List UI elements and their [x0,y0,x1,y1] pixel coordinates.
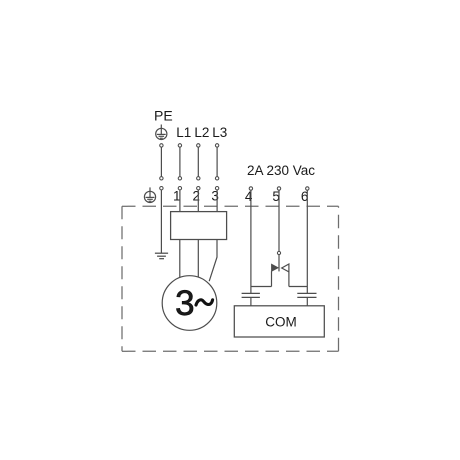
enclosure (dashed box) bottom edge [122,350,339,352]
wire block to motor (phase 1) [179,240,181,278]
wire triac to node 6 branch [289,286,307,288]
wire terminal 4 down to capacitor contact [250,190,252,293]
node terminal 1 pin [178,187,181,190]
svg-text:L3: L3 [212,125,227,140]
wire PE lead [160,147,162,177]
node PE terminal pin [160,187,163,190]
svg-text:L2: L2 [194,125,209,140]
wire triac to node 4 branch [251,286,272,288]
wire terminal 6 down to capacitor contact [306,190,308,293]
svg-text:3: 3 [211,188,219,203]
svg-text:PE: PE [154,107,173,123]
wire block to motor (phase 3, dogleg) [209,240,217,282]
wire PE to ground [160,190,162,253]
svg-text:L1: L1 [176,125,191,140]
wire terminal 2 to terminal block [197,190,199,212]
terminal block [171,212,227,240]
node terminal 4 pin [249,187,252,190]
node L2 lead end pin [197,177,200,180]
capacitor C2 (right contact plates) [297,293,316,297]
triac U1 (right open triangle) [282,264,289,272]
ground symbol [155,253,168,259]
node L3 supply pin [215,144,218,147]
svg-text:4: 4 [245,189,253,204]
svg-text:2A 230 Vac: 2A 230 Vac [247,163,315,178]
triac left leg [271,271,273,286]
protective earth symbol (top, PE) [156,125,167,140]
wire block to motor (phase 2) [197,240,199,277]
COM module box [234,306,324,337]
node L1 supply pin [178,144,181,147]
node PE supply pin [160,144,163,147]
wire terminal 3 to terminal block [216,190,218,212]
gate wire into triac [278,255,280,272]
svg-text:3: 3 [175,284,194,323]
node L3 lead end pin [215,177,218,180]
triac right leg [288,272,290,287]
enclosure (dashed box) left edge [121,206,123,351]
wire L3 lead [216,147,218,177]
node terminal 6 pin [306,187,309,190]
protective earth symbol (on enclosure) [144,187,155,202]
wire terminal 5 down to gate circle [278,190,280,251]
node L1 lead end pin [178,177,181,180]
triac U1 (left filled triangle) [272,264,279,271]
enclosure (dashed box) right edge [338,206,340,351]
wire L2 lead [197,147,199,177]
wire terminal 1 to terminal block [179,190,181,212]
wire capacitor C2 to COM [306,297,308,305]
node L2 supply pin [197,144,200,147]
wire capacitor C1 to COM [250,297,252,305]
wire L1 lead [179,147,181,177]
node PE lead end pin [160,177,163,180]
motor M (3~) [162,276,217,331]
node terminal 2 pin [197,187,200,190]
svg-text:COM: COM [265,314,297,329]
node terminal 3 pin [215,187,218,190]
enclosure (dashed box) top edge [122,205,339,207]
node terminal 5 pin [277,187,280,190]
gate node circle [277,251,280,254]
capacitor C1 (left contact plates) [242,293,260,297]
